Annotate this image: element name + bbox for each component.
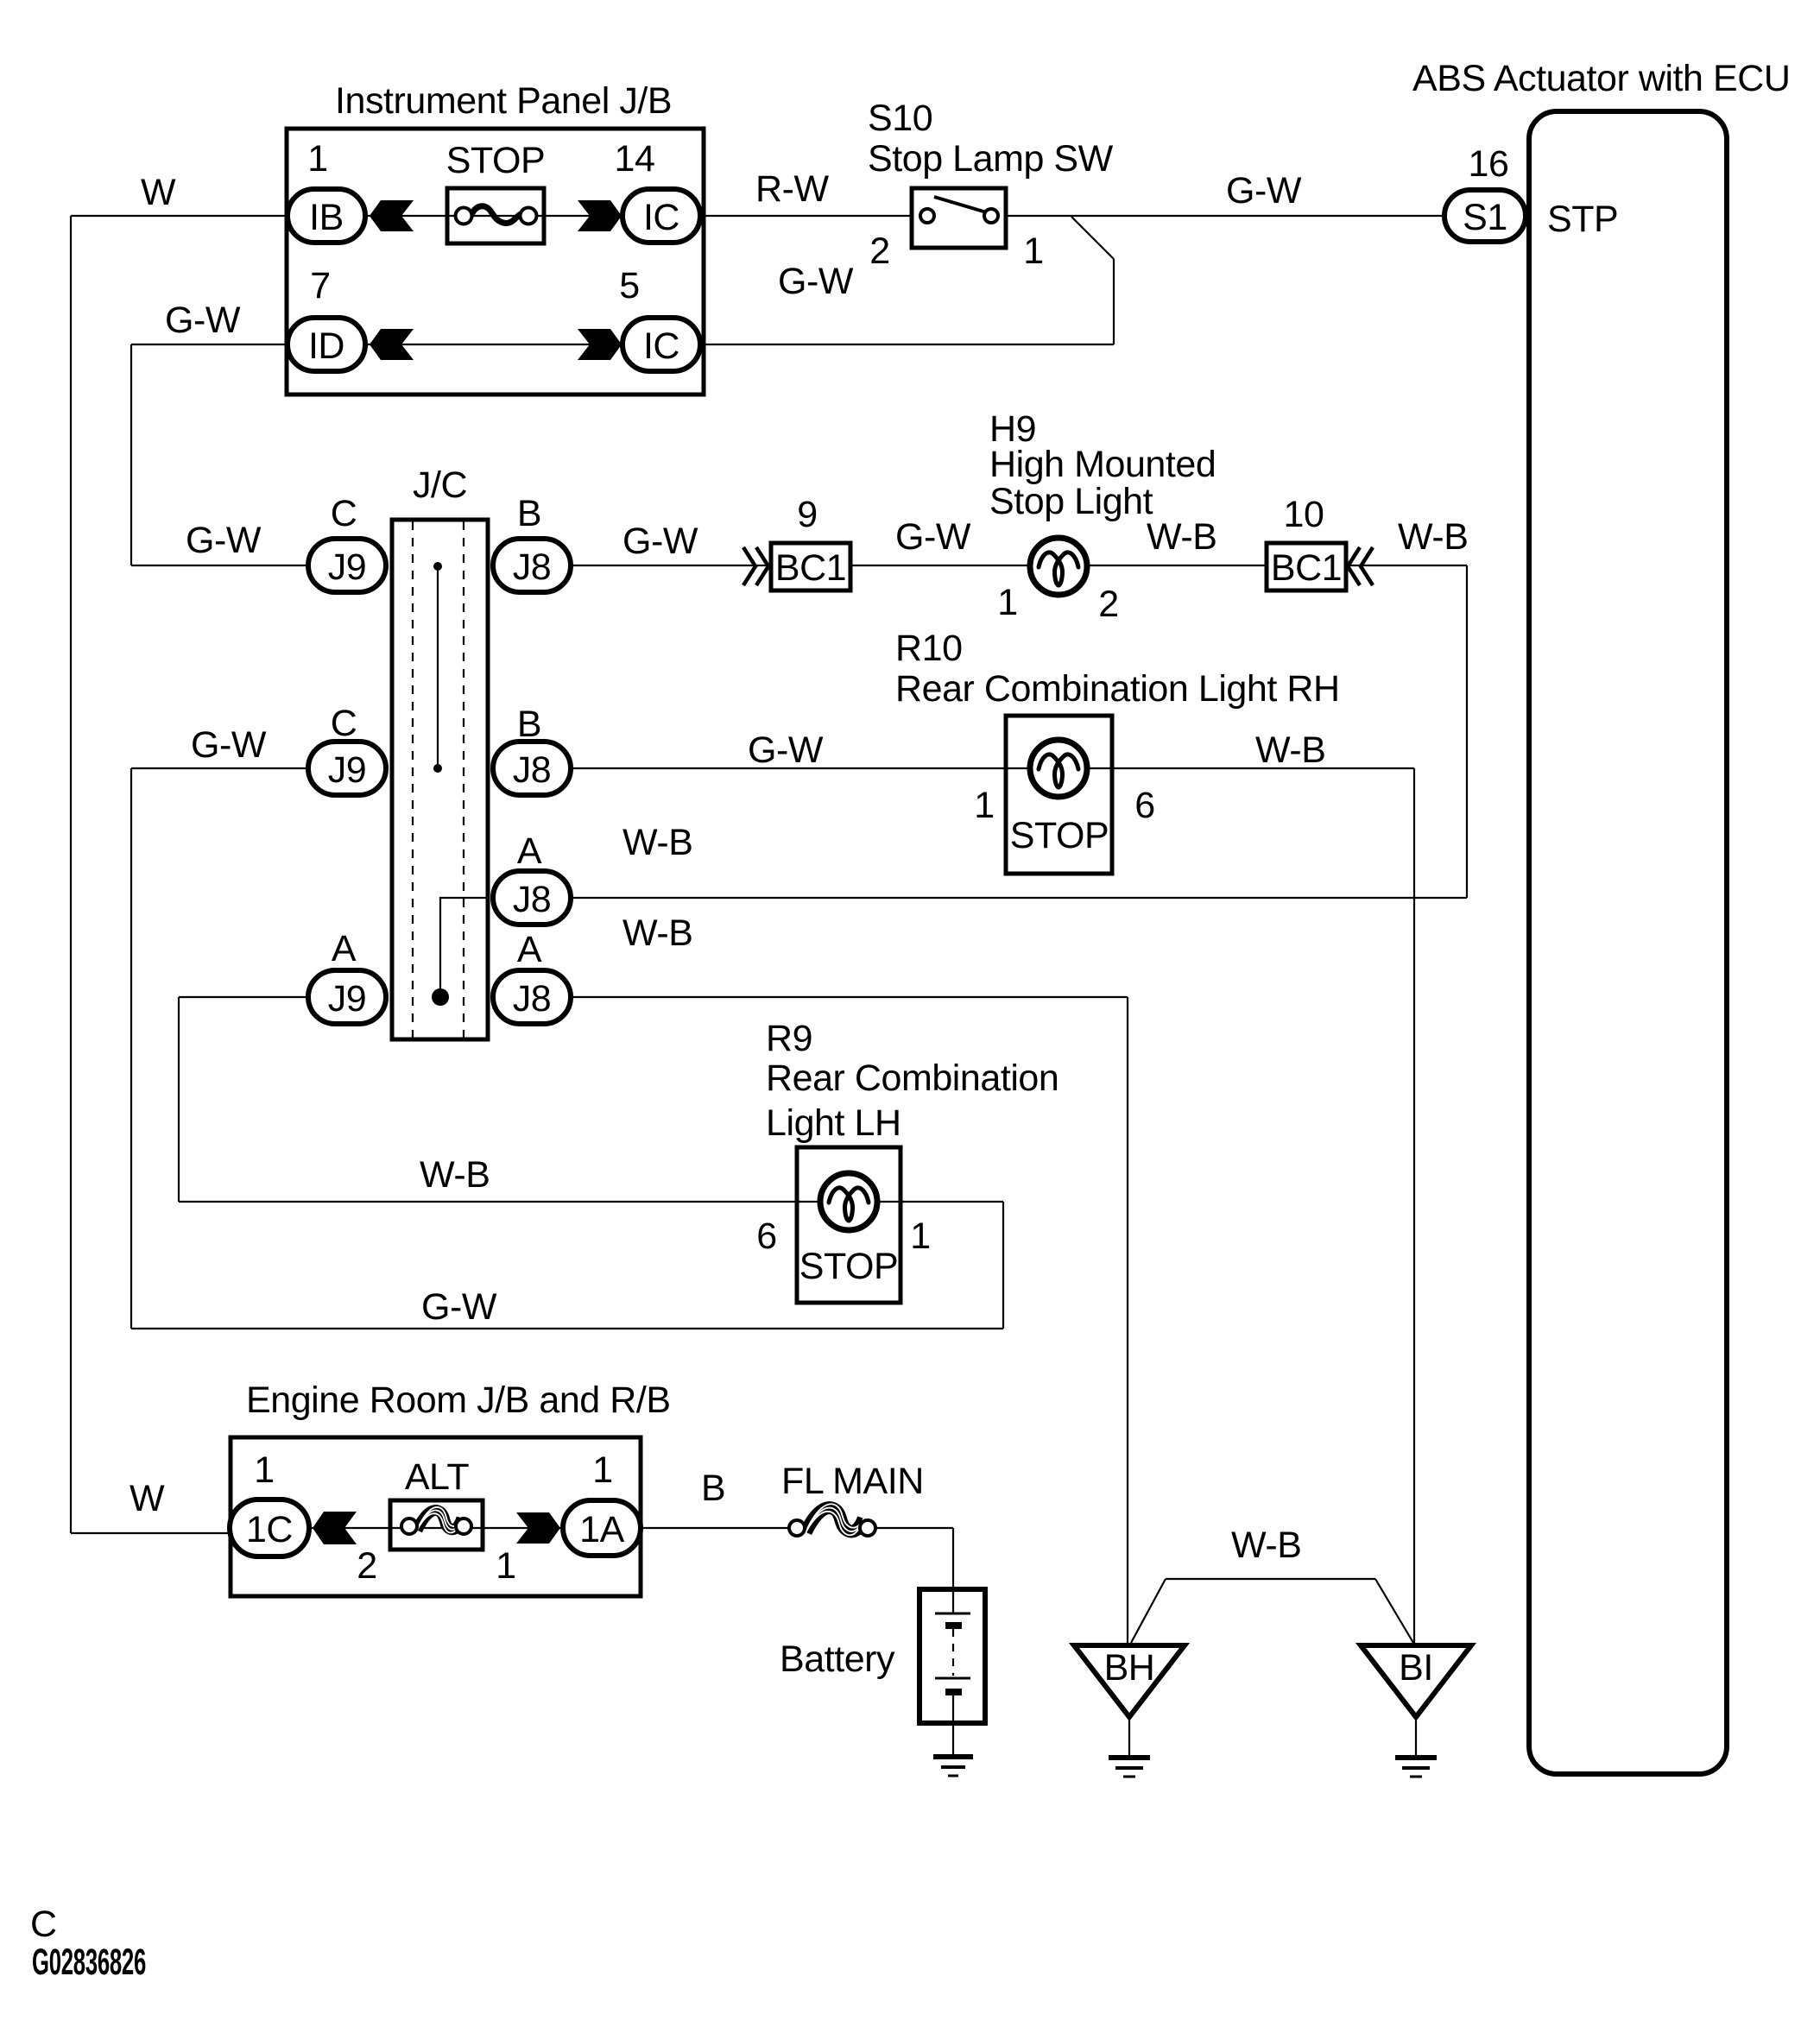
chevrons into BC1 right [1348,547,1373,585]
svg-text:IC: IC [643,197,679,238]
chevrons into BC1 left [743,547,768,585]
fuse STOP [447,188,544,243]
wire row1 J8 to BC1 [572,565,769,566]
svg-text:A: A [517,830,542,872]
Engine Room J/B box [231,1437,641,1596]
svg-text:J/C: J/C [413,464,467,506]
svg-text:A: A [517,929,542,970]
wire W-B vertical to BH [1127,997,1128,1643]
connector J9 row4 [308,970,386,1024]
svg-text:IC: IC [643,325,679,367]
wire row4 J9 to left [179,996,306,998]
wire ALT to 1A [482,1527,561,1529]
svg-text:S1: S1 [1463,197,1507,238]
svg-text:1: 1 [307,138,327,180]
svg-text:High Mounted: High Mounted [989,444,1216,485]
svg-text:G-W: G-W [622,521,698,562]
junction dot row1 [433,562,442,571]
svg-text:G02836826: G02836826 [32,1941,146,1983]
svg-text:1: 1 [254,1449,274,1491]
svg-text:G-W: G-W [165,300,241,341]
svg-text:STOP: STOP [799,1246,899,1287]
J/C internal link row1-row2 [437,566,439,768]
wire G-W switch to S1 [1006,215,1446,217]
svg-text:Stop Light: Stop Light [989,481,1153,522]
wire G-W into J9 row1 [131,565,307,566]
svg-text:STP: STP [1547,199,1618,240]
svg-text:R10: R10 [895,628,963,669]
battery [919,1589,985,1754]
svg-text:R-W: R-W [755,168,829,210]
wire G-W bottom [131,1328,1003,1329]
wire row1 BC1 to H9 to BC1 right [850,565,1267,566]
arrow left row2 [370,329,414,360]
J/C dashed line left [412,521,414,1038]
svg-text:2: 2 [869,230,889,272]
connector J9 row2 [308,742,386,795]
connector IC pin 14 [622,189,700,243]
svg-text:J9: J9 [328,749,367,791]
wire through R9 [797,1201,901,1203]
svg-text:J8: J8 [513,879,552,920]
svg-text:A: A [332,928,357,969]
connector 1C [230,1499,309,1556]
svg-text:W-B: W-B [622,912,692,954]
svg-text:S10: S10 [868,98,932,139]
svg-text:BH: BH [1104,1647,1155,1689]
svg-text:ALT: ALT [405,1456,470,1498]
arrow left engine room [313,1512,357,1544]
svg-text:R9: R9 [766,1018,812,1059]
svg-text:BC1: BC1 [775,547,846,589]
connector J8 row4 [493,970,571,1024]
connector J8 row1 [493,539,571,592]
wire R-W [702,215,912,217]
wire W left vertical [70,216,72,1533]
wire FL MAIN to corner [875,1527,953,1529]
wire G-W to IC5 [701,344,1114,345]
svg-text:Instrument Panel J/B: Instrument Panel J/B [335,80,672,122]
connector BC1 left [771,543,850,590]
svg-text:B: B [701,1468,725,1509]
connector IC pin 5 [622,318,700,371]
svg-text:STOP: STOP [1010,815,1109,856]
wire jog vertical [1113,259,1115,344]
svg-text:W-B: W-B [1255,729,1325,771]
ground BI [1361,1645,1471,1777]
J/C dashed line right [463,521,464,1038]
svg-text:6: 6 [756,1215,776,1257]
arrow left row1 [370,200,414,231]
connector IB [288,189,365,243]
svg-text:W-B: W-B [1147,516,1216,558]
J/C internal stub row3 [440,898,490,997]
connector S1 [1444,190,1526,242]
ABS Actuator with ECU box [1529,111,1727,1774]
arrow right row2 [578,329,622,360]
svg-text:J9: J9 [328,546,367,588]
rear combination light LH box [797,1147,901,1303]
svg-text:J9: J9 [328,978,367,1020]
bulb R10 [1030,740,1087,797]
arrow right row1 [578,200,622,231]
wire W-B bridge diagonal right [1375,1579,1413,1643]
svg-text:STOP: STOP [446,140,546,181]
ground BH [1074,1645,1185,1777]
wire 1C to ALT [311,1527,390,1529]
svg-text:G-W: G-W [191,724,267,766]
connector J9 row1 [308,539,386,592]
connector 1A [563,1500,641,1556]
wire G-W row2 to R10 [572,767,1114,769]
connector BC1 right [1267,543,1346,590]
svg-text:16: 16 [1469,143,1509,185]
svg-text:C: C [30,1904,57,1945]
svg-text:W: W [130,1478,165,1519]
svg-text:B: B [517,493,541,534]
wire G-W left vertical long [130,768,132,1329]
junction connector J/C box [392,520,488,1039]
svg-text:J8: J8 [513,749,552,791]
bulb H9 [1030,538,1087,595]
svg-text:1: 1 [496,1545,515,1587]
svg-text:Engine Room J/B and R/B: Engine Room J/B and R/B [246,1380,671,1421]
svg-text:1: 1 [1023,230,1043,272]
wire vertical x1162 [1002,1202,1004,1329]
svg-text:IB: IB [309,197,344,238]
svg-text:Light LH: Light LH [766,1102,901,1144]
svg-text:1: 1 [974,785,994,826]
wire jog diagonal [1071,217,1114,259]
wire W-B row4 to right [572,996,1128,998]
wire ID to IC row2 [367,344,622,345]
wire down to battery [952,1528,954,1588]
wire W-B vertical to BI [1413,768,1415,1643]
wire W-B bridge diagonal left [1131,1579,1166,1643]
svg-text:W-B: W-B [1231,1525,1301,1566]
svg-text:5: 5 [619,265,639,306]
svg-text:B: B [517,704,541,745]
svg-text:ID: ID [308,325,344,367]
wire fuse STOP to IC [544,215,622,217]
svg-text:W-B: W-B [420,1154,490,1196]
junction dot row2 [433,764,442,773]
svg-text:14: 14 [615,138,655,180]
wire G-W row2 to left [131,767,307,769]
svg-text:G-W: G-W [421,1286,497,1328]
fusible link FL MAIN [789,1504,875,1536]
svg-text:10: 10 [1284,494,1324,535]
rear combination light RH box [1006,716,1112,874]
Instrument Panel J/B box [287,129,704,395]
arrow right engine room [516,1512,560,1544]
svg-text:G-W: G-W [1226,170,1302,212]
svg-text:W: W [141,172,176,213]
fuse ALT [390,1500,483,1550]
wire G-W vertical to J/C row1 [130,344,132,565]
svg-text:Rear Combination Light RH: Rear Combination Light RH [895,668,1340,710]
connector J8 row2 [493,742,571,795]
connector J8 row3 [493,871,571,925]
svg-text:G-W: G-W [895,516,971,558]
wire W-B row3 horizontal [572,897,1467,899]
svg-text:9: 9 [797,494,817,535]
svg-text:C: C [331,703,357,744]
svg-text:7: 7 [310,265,330,306]
svg-text:Rear Combination: Rear Combination [766,1058,1059,1099]
wire G-W from ID to left [131,344,288,345]
svg-text:1A: 1A [579,1509,624,1550]
wire row1 BC1 right to corner [1346,565,1467,566]
wire W-B bridge horizontal [1166,1578,1375,1580]
wire W-B R10 to right [1114,767,1414,769]
wire IB to fuse STOP [367,215,447,217]
bulb R9 [820,1173,877,1230]
svg-text:1: 1 [592,1449,612,1491]
wire 1A to FL MAIN [642,1527,789,1529]
wire R9 pin1 right [901,1201,1003,1203]
svg-text:FL MAIN: FL MAIN [781,1461,924,1502]
svg-text:BI: BI [1399,1647,1433,1689]
junction dot row4 [432,988,449,1006]
svg-text:1: 1 [910,1215,930,1257]
svg-text:C: C [331,493,357,534]
svg-text:2: 2 [1098,584,1118,625]
wire W-B vertical x207 [178,997,180,1202]
connector ID [288,318,365,371]
wire W bottom horizontal to 1C [71,1532,231,1534]
svg-text:BC1: BC1 [1271,547,1342,589]
svg-text:1: 1 [997,582,1017,623]
wire W-B to R9 [179,1201,797,1203]
svg-text:J8: J8 [513,978,552,1020]
svg-text:W-B: W-B [1398,516,1468,558]
switch S10 [912,188,1006,248]
svg-text:2: 2 [357,1545,376,1587]
svg-text:Battery: Battery [780,1638,895,1680]
svg-text:Stop Lamp SW: Stop Lamp SW [868,138,1114,180]
svg-text:1C: 1C [246,1509,293,1550]
svg-text:J8: J8 [513,546,552,588]
svg-text:6: 6 [1134,785,1154,826]
wire W top horizontal [71,215,288,217]
wire W-B vertical x1699 [1466,565,1468,898]
svg-text:G-W: G-W [748,729,824,771]
svg-text:G-W: G-W [186,520,262,561]
ground battery [933,1757,973,1776]
svg-text:ABS Actuator with ECU: ABS Actuator with ECU [1412,58,1790,99]
svg-text:G-W: G-W [778,261,854,302]
svg-text:W-B: W-B [622,822,692,863]
